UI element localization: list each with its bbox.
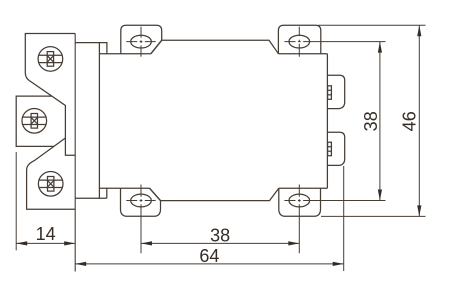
oval slot TR bbox=[289, 35, 310, 48]
centerlines TR (horizontal doubles as extension line of dim 38 vertical) bbox=[284, 27, 385, 57]
coil terminal T2 bbox=[327, 132, 344, 165]
oval slot BR bbox=[289, 194, 310, 207]
screw S2 bbox=[22, 109, 47, 134]
screw S1 bbox=[38, 47, 63, 72]
body top edge left segment bbox=[99, 53, 150, 55]
terminal block B3 bottom outline bbox=[27, 138, 76, 209]
terminal block B2 middle outline bbox=[16, 96, 54, 146]
dimension 46 bbox=[318, 25, 426, 216]
mounting tab BL bbox=[121, 188, 161, 216]
mounting tab TR bbox=[278, 25, 320, 53]
body left edge bbox=[98, 43, 100, 199]
coil terminal T1 bbox=[327, 75, 344, 108]
plate top step line bbox=[75, 43, 107, 54]
dimension 14 bbox=[16, 152, 75, 250]
dimension 38 vertical bbox=[378, 42, 382, 201]
terminal block B1 top outline bbox=[25, 34, 75, 156]
mounting plate left edge (doubles as extension line for 14/64) bbox=[74, 34, 76, 272]
svg-text:38: 38 bbox=[361, 111, 381, 131]
svg-text:46: 46 bbox=[400, 111, 420, 131]
centerlines TL bbox=[126, 27, 155, 57]
oval slot TL bbox=[131, 35, 152, 48]
oval slot BL bbox=[131, 194, 152, 207]
centerlines BR (horizontal doubles as extension of dim 38 vertical, vertical as extension of dim 38 bottom) bbox=[284, 185, 385, 254]
body right edge bbox=[326, 54, 328, 189]
body top bridge between tabs bbox=[151, 40, 279, 53]
plate bottom step line bbox=[75, 188, 107, 198]
body bottom edge right segment bbox=[279, 187, 328, 189]
svg-text:64: 64 bbox=[199, 246, 219, 266]
mounting tab BR bbox=[279, 188, 321, 216]
body bottom bridge between tabs bbox=[150, 188, 279, 200]
dimension 38 bottom bbox=[141, 241, 299, 245]
body top edge right segment bbox=[278, 53, 327, 55]
body bottom edge left segment bbox=[99, 187, 149, 189]
dimension 64 bbox=[75, 166, 344, 271]
mounting tab TL bbox=[121, 25, 162, 53]
centerlines BL (vertical doubles as extension line of dim 38 bottom) bbox=[126, 185, 155, 254]
svg-text:38: 38 bbox=[210, 226, 230, 246]
svg-text:14: 14 bbox=[36, 224, 56, 244]
screw S3 bbox=[38, 172, 63, 197]
